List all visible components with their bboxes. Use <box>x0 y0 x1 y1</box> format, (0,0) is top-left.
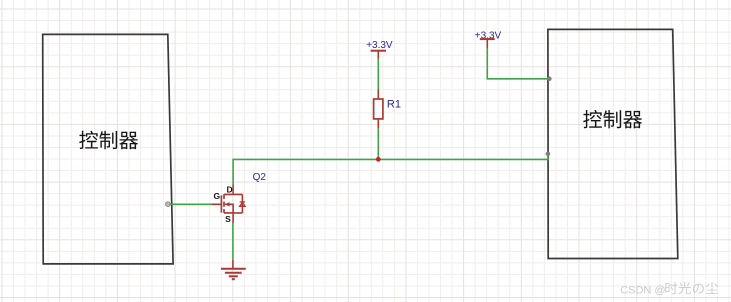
wire left box to gate of Q2 <box>168 203 212 205</box>
wire source to ground <box>232 223 234 260</box>
svg-text:G: G <box>213 191 220 201</box>
wire +3.3V to R1 <box>377 59 379 90</box>
resistor R1 <box>374 90 401 129</box>
svg-text:+3.3V: +3.3V <box>366 40 393 51</box>
watermark <box>620 282 718 296</box>
power symbol +3.3V (left) <box>366 40 393 58</box>
connection node on right box (mid) <box>546 152 551 157</box>
right controller box U_right <box>548 29 678 258</box>
wire R1 to junction <box>377 128 379 159</box>
transistor Q2 (N-MOSFET) <box>212 185 246 223</box>
svg-text:R1: R1 <box>387 99 401 111</box>
left controller box U_left <box>43 34 173 264</box>
ground symbol <box>221 260 246 279</box>
svg-text:D: D <box>227 184 233 194</box>
svg-text:S: S <box>225 214 231 224</box>
svg-text:Q2: Q2 <box>253 172 267 183</box>
wire main net (drain to right box) <box>233 154 548 184</box>
connection node on right box (top) <box>547 77 552 82</box>
wire +3.3V to right box <box>487 49 549 79</box>
svg-text:CSDN @: CSDN @ <box>620 284 665 296</box>
power symbol +3.3V (right) <box>475 30 502 48</box>
junction node <box>376 157 381 162</box>
connection node on left box <box>166 202 171 207</box>
